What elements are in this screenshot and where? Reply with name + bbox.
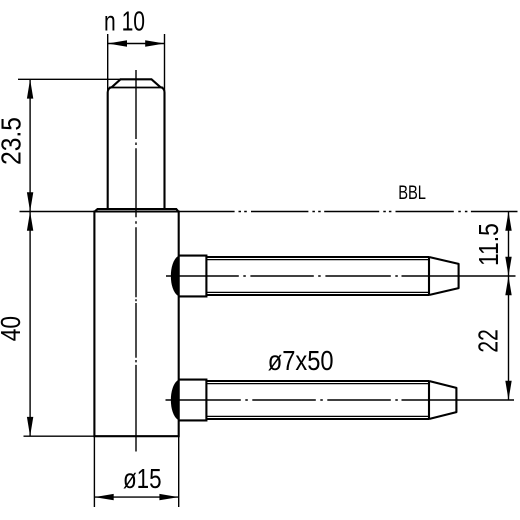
svg-text:22: 22 bbox=[473, 329, 504, 352]
arrow 23.5 bottom bbox=[27, 192, 33, 211]
pin 1 thread inner lines bbox=[206, 260, 429, 293]
pin 2 shaft outer bbox=[206, 381, 429, 419]
svg-text:11.5: 11.5 bbox=[473, 223, 504, 266]
arrow 22 bottom bbox=[505, 381, 511, 400]
arrow 40 bottom bbox=[27, 417, 33, 436]
body outline bbox=[94, 212, 178, 437]
pin 1 thread end bbox=[428, 257, 430, 295]
dim 23.5 extension line top bbox=[18, 78, 121, 80]
arrow ø15 right bbox=[159, 494, 178, 500]
dim n10 extension lines bbox=[108, 34, 165, 93]
pin 1 shaft outer bbox=[206, 257, 429, 295]
dim ø15 dimension line bbox=[94, 496, 178, 498]
dim 11.5 dimension line bbox=[508, 212, 510, 277]
svg-text:ø7x50: ø7x50 bbox=[268, 345, 334, 376]
pin 2 thread inner lines bbox=[206, 384, 429, 417]
top pin outline bbox=[108, 79, 165, 209]
dim 22 dimension line bbox=[508, 276, 510, 400]
dim 40 dimension line bbox=[29, 212, 31, 437]
svg-text:23.5: 23.5 bbox=[0, 117, 27, 165]
BBL reference line (phantom) bbox=[179, 211, 518, 213]
dim n10 dimension line bbox=[108, 43, 165, 45]
pin 1 head bbox=[179, 256, 207, 297]
pin 1 centerline bbox=[166, 275, 516, 277]
dim 23.5 dimension line bbox=[29, 79, 31, 211]
arrow 11.5 top bbox=[505, 212, 511, 231]
pin 2 centerline bbox=[166, 399, 515, 401]
dim 40 extension line bottom bbox=[24, 435, 95, 437]
arrow 23.5 top bbox=[27, 79, 33, 98]
arrow n10 left bbox=[108, 40, 127, 46]
svg-text:BBL: BBL bbox=[398, 183, 426, 204]
arrow 22 top bbox=[505, 276, 511, 295]
pin 2 thread end bbox=[428, 381, 430, 419]
svg-text:n 10: n 10 bbox=[104, 5, 145, 36]
arrow 40 top bbox=[27, 212, 33, 231]
pin 2 head bbox=[179, 380, 207, 421]
centerline vertical (hinge axis) bbox=[135, 70, 137, 452]
dim ø15 extension lines bbox=[94, 436, 178, 507]
svg-text:ø15: ø15 bbox=[123, 463, 162, 494]
pin 2 tip cone bbox=[429, 381, 456, 419]
collar (body top chamfer) bbox=[95, 209, 179, 212]
pin 1 dome end (filled lens) bbox=[171, 256, 178, 295]
extension line left at BBL level bbox=[20, 211, 95, 213]
arrow ø15 left bbox=[94, 494, 113, 500]
pin 2 dome end (filled lens) bbox=[171, 380, 178, 419]
pin 1 tip cone bbox=[429, 257, 459, 295]
top pin chamfer base line bbox=[109, 87, 163, 89]
arrow n10 right bbox=[145, 40, 164, 46]
arrow 11.5 bottom bbox=[505, 257, 511, 276]
svg-text:40: 40 bbox=[0, 316, 26, 341]
